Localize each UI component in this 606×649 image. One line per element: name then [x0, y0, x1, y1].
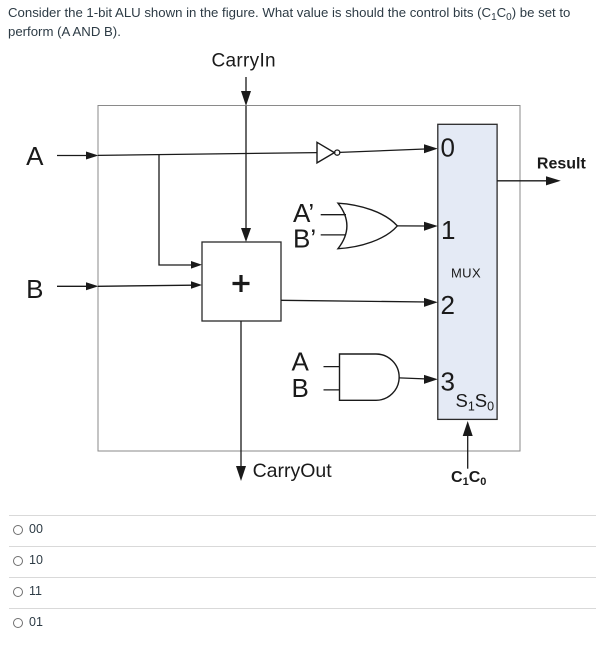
svg-text:1: 1 — [441, 215, 455, 245]
wire A to NOT gate — [98, 153, 317, 156]
circuit diagram — [0, 0, 606, 500]
wire CarryOut — [240, 321, 242, 467]
svg-text:0: 0 — [441, 133, 455, 163]
adder plus symbol — [233, 275, 250, 292]
svg-text:B’: B’ — [293, 224, 316, 254]
wire B to adder — [98, 285, 192, 286]
and-gate U3 — [340, 354, 400, 400]
svg-text:CarryIn: CarryIn — [212, 50, 276, 71]
wire B stub to AND — [324, 389, 341, 391]
svg-text:A: A — [26, 141, 44, 171]
svg-text:B: B — [26, 274, 43, 304]
answer options — [0, 0, 606, 1]
inverter (NOT gate) — [317, 142, 334, 163]
outer box — [98, 106, 520, 452]
wire A' stub — [321, 214, 346, 216]
wire AND to MUX input 3 — [399, 378, 428, 379]
wire OR to MUX input 1 — [397, 225, 428, 227]
svg-text:MUX: MUX — [451, 266, 481, 281]
wire NOT to MUX input 0 — [340, 149, 428, 153]
wire CarryIn to adder — [245, 106, 247, 231]
adder U1 — [202, 242, 281, 321]
wire A stub to AND — [324, 366, 341, 368]
svg-text:3: 3 — [441, 367, 455, 397]
or-gate U2 — [338, 203, 397, 249]
svg-text:C1C0: C1C0 — [451, 469, 486, 488]
svg-text:Result: Result — [537, 156, 587, 173]
wire C1C0 select input — [467, 433, 469, 469]
question text — [8, 4, 570, 41]
wire B' stub — [321, 234, 346, 236]
svg-text:B: B — [292, 373, 309, 403]
wire adder output to MUX input 2 — [281, 300, 428, 302]
svg-text:2: 2 — [441, 290, 455, 320]
wire CarryIn arrow to box — [245, 77, 247, 92]
wire Result output — [497, 180, 548, 182]
svg-text:A: A — [292, 347, 310, 377]
wire B input arrow — [57, 285, 89, 287]
wire A input arrow — [57, 155, 89, 157]
wire A branch to adder — [159, 155, 192, 265]
MUX box — [438, 124, 497, 419]
svg-text:CarryOut: CarryOut — [253, 460, 333, 482]
